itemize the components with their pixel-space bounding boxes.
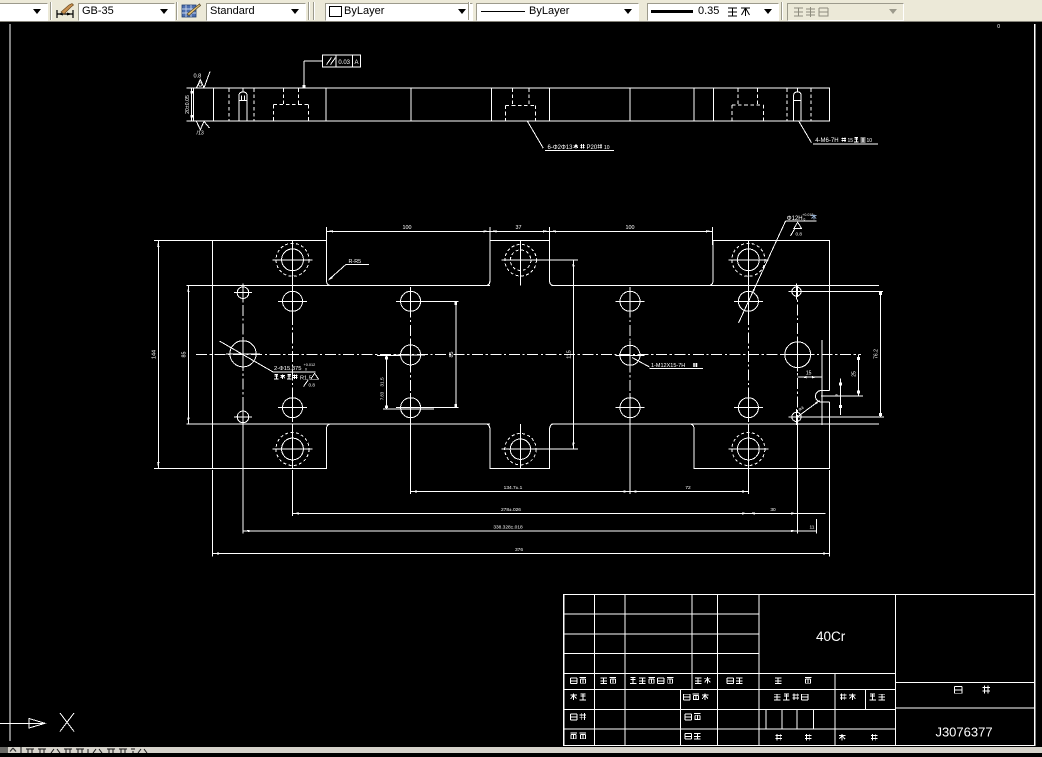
title block texts row shenhe (570, 713, 700, 720)
text style combo Standard (206, 3, 306, 21)
bottom dim 376 (213, 470, 830, 557)
dim 25 right (821, 355, 863, 396)
corner counterbore hole TL (273, 240, 313, 280)
svg-text:10: 10 (867, 138, 873, 144)
color control combo ByLayer (325, 3, 473, 21)
top dim line 100 / 37 / 100 (327, 225, 713, 245)
label 2-dia15.875 dowel holes (220, 341, 319, 387)
right edge slot R4 (815, 391, 829, 403)
section view plate outline (193, 88, 829, 121)
dim 31.5 vertical (377, 356, 434, 409)
svg-text:0.8: 0.8 (309, 382, 316, 387)
sheet right border line (1034, 24, 1036, 746)
svg-text:0: 0 (997, 24, 1000, 30)
svg-text:100: 100 (626, 225, 635, 231)
bottom dim 338.328 and 11 (243, 425, 817, 534)
svg-text:85: 85 (181, 352, 187, 358)
lineweight combo 0.35 mm (647, 3, 779, 21)
dim 85 mid vertical (420, 301, 459, 407)
tab counterbore hole top (502, 241, 540, 279)
svg-text:0.8: 0.8 (194, 74, 202, 80)
corner counterbore hole TR (728, 240, 768, 280)
part name di ban (954, 686, 990, 694)
svg-text:37: 37 (516, 225, 522, 231)
dim style combo GB-35 (78, 3, 175, 21)
leader label 6-counterbore holes (528, 122, 614, 152)
dim 115 vertical center (504, 260, 578, 449)
medium holes row1 (278, 287, 763, 316)
label R-R5 notch fillet (327, 259, 369, 281)
sheet left border line (9, 24, 11, 741)
svg-text:9: 9 (834, 394, 839, 397)
svg-text:376: 376 (515, 547, 523, 553)
tab counterbore hole bottom (501, 430, 539, 468)
thickness dim 20+-0.05 (185, 88, 196, 121)
svg-text:144: 144 (151, 350, 157, 359)
large holes center row (226, 337, 815, 372)
svg-text:+0.018: +0.018 (802, 213, 813, 217)
title block outer frame (564, 595, 1035, 746)
medium holes row3 (278, 393, 763, 422)
svg-text:85: 85 (449, 352, 455, 358)
linetype combo ByLayer (476, 3, 639, 21)
svg-text:278±.026: 278±.026 (501, 507, 521, 513)
svg-text:/13: /13 (197, 131, 204, 137)
partial combo box (left clipped) (0, 3, 48, 21)
svg-text:30: 30 (770, 507, 776, 513)
svg-text:134.7±.1: 134.7±.1 (504, 485, 523, 491)
small pin holes left column (234, 284, 252, 426)
svg-text:31.5: 31.5 (379, 377, 385, 387)
svg-text:15: 15 (806, 371, 812, 377)
section view division lines (214, 88, 714, 121)
corner counterbore hole BR (728, 429, 768, 469)
step/extension line lower y=423.9 (186, 423, 490, 425)
plot style combo (disabled) (787, 3, 904, 21)
svg-text:10: 10 (604, 145, 610, 151)
svg-text:15: 15 (848, 138, 854, 144)
dim 9 slot (834, 379, 842, 416)
section hidden hole col 243 (dowel pin hole) (229, 88, 254, 121)
dim style icon (55, 3, 75, 19)
section hidden counterbore col 748 (732, 88, 764, 121)
bottom dim 134.7 and 72 (411, 419, 749, 494)
section hidden hole col 798 (pin) (787, 88, 811, 121)
svg-text:0.8: 0.8 (796, 232, 803, 237)
leader label 4-M6 tapped holes (799, 122, 878, 145)
bottom dim 278 and 30 (293, 419, 826, 534)
svg-text:0.03: 0.03 (338, 60, 350, 66)
svg-text:4-M6-7H: 4-M6-7H (815, 138, 838, 144)
surface finish mark bottom (1.3) (197, 121, 210, 136)
title block texts row sheji (570, 693, 885, 700)
title block horizontal lines (564, 614, 1035, 729)
svg-text:72: 72 (685, 485, 691, 491)
svg-text:100: 100 (403, 225, 412, 231)
corner counterbore hole BL (273, 429, 313, 469)
dim 85 left (181, 286, 189, 424)
title block texts row biaoji (570, 677, 811, 684)
small pin holes right column (789, 284, 805, 425)
svg-text:7.83: 7.83 (379, 391, 384, 400)
svg-text:11: 11 (810, 524, 815, 530)
svg-text:A: A (354, 60, 358, 66)
toolbar separator (50, 2, 51, 20)
title block texts row gongyi (570, 733, 877, 740)
dim 144 left (151, 241, 212, 469)
svg-text:76.2: 76.2 (873, 349, 879, 359)
column center lines (243, 241, 798, 469)
leader R4 slot (798, 400, 821, 417)
step/extension line upper y=285.7 (186, 285, 490, 287)
surface finish mark top (0.8) (194, 72, 211, 88)
parallelism tolerance frame // 0.03 A (303, 55, 361, 88)
medium holes center row (396, 340, 644, 369)
svg-text:6-Φ2Φ13: 6-Φ2Φ13 (548, 145, 574, 151)
svg-text:25: 25 (852, 371, 858, 377)
svg-text:0: 0 (305, 367, 307, 371)
title block vertical lines (595, 595, 896, 746)
label dia12H7 with datum A (739, 213, 817, 323)
svg-text:1-M12X15-7H: 1-M12X15-7H (651, 363, 685, 369)
svg-text:338.328±.018: 338.328±.018 (493, 524, 523, 530)
horizontal center line (196, 354, 861, 356)
svg-text:2-Φ15.875: 2-Φ15.875 (274, 366, 302, 372)
section hidden counterbore col 520 (506, 88, 536, 121)
svg-text:20±0.05: 20±0.05 (185, 95, 191, 114)
svg-text:R1.5: R1.5 (300, 376, 312, 382)
model/layout tabs strip (clipped) (0, 747, 1042, 753)
dim 76.2 right (791, 292, 884, 418)
plan view plate outline (213, 241, 830, 469)
svg-text:40Cr: 40Cr (816, 629, 846, 644)
section hidden counterbore col 292 (273, 88, 308, 121)
UCS icon X axis (0, 713, 74, 732)
svg-text:115: 115 (567, 350, 573, 359)
svg-text:J3076377: J3076377 (935, 725, 992, 740)
svg-text:P20: P20 (587, 145, 598, 151)
dim 15 right (798, 340, 822, 425)
label 1-M12 tapped hole (632, 358, 703, 370)
